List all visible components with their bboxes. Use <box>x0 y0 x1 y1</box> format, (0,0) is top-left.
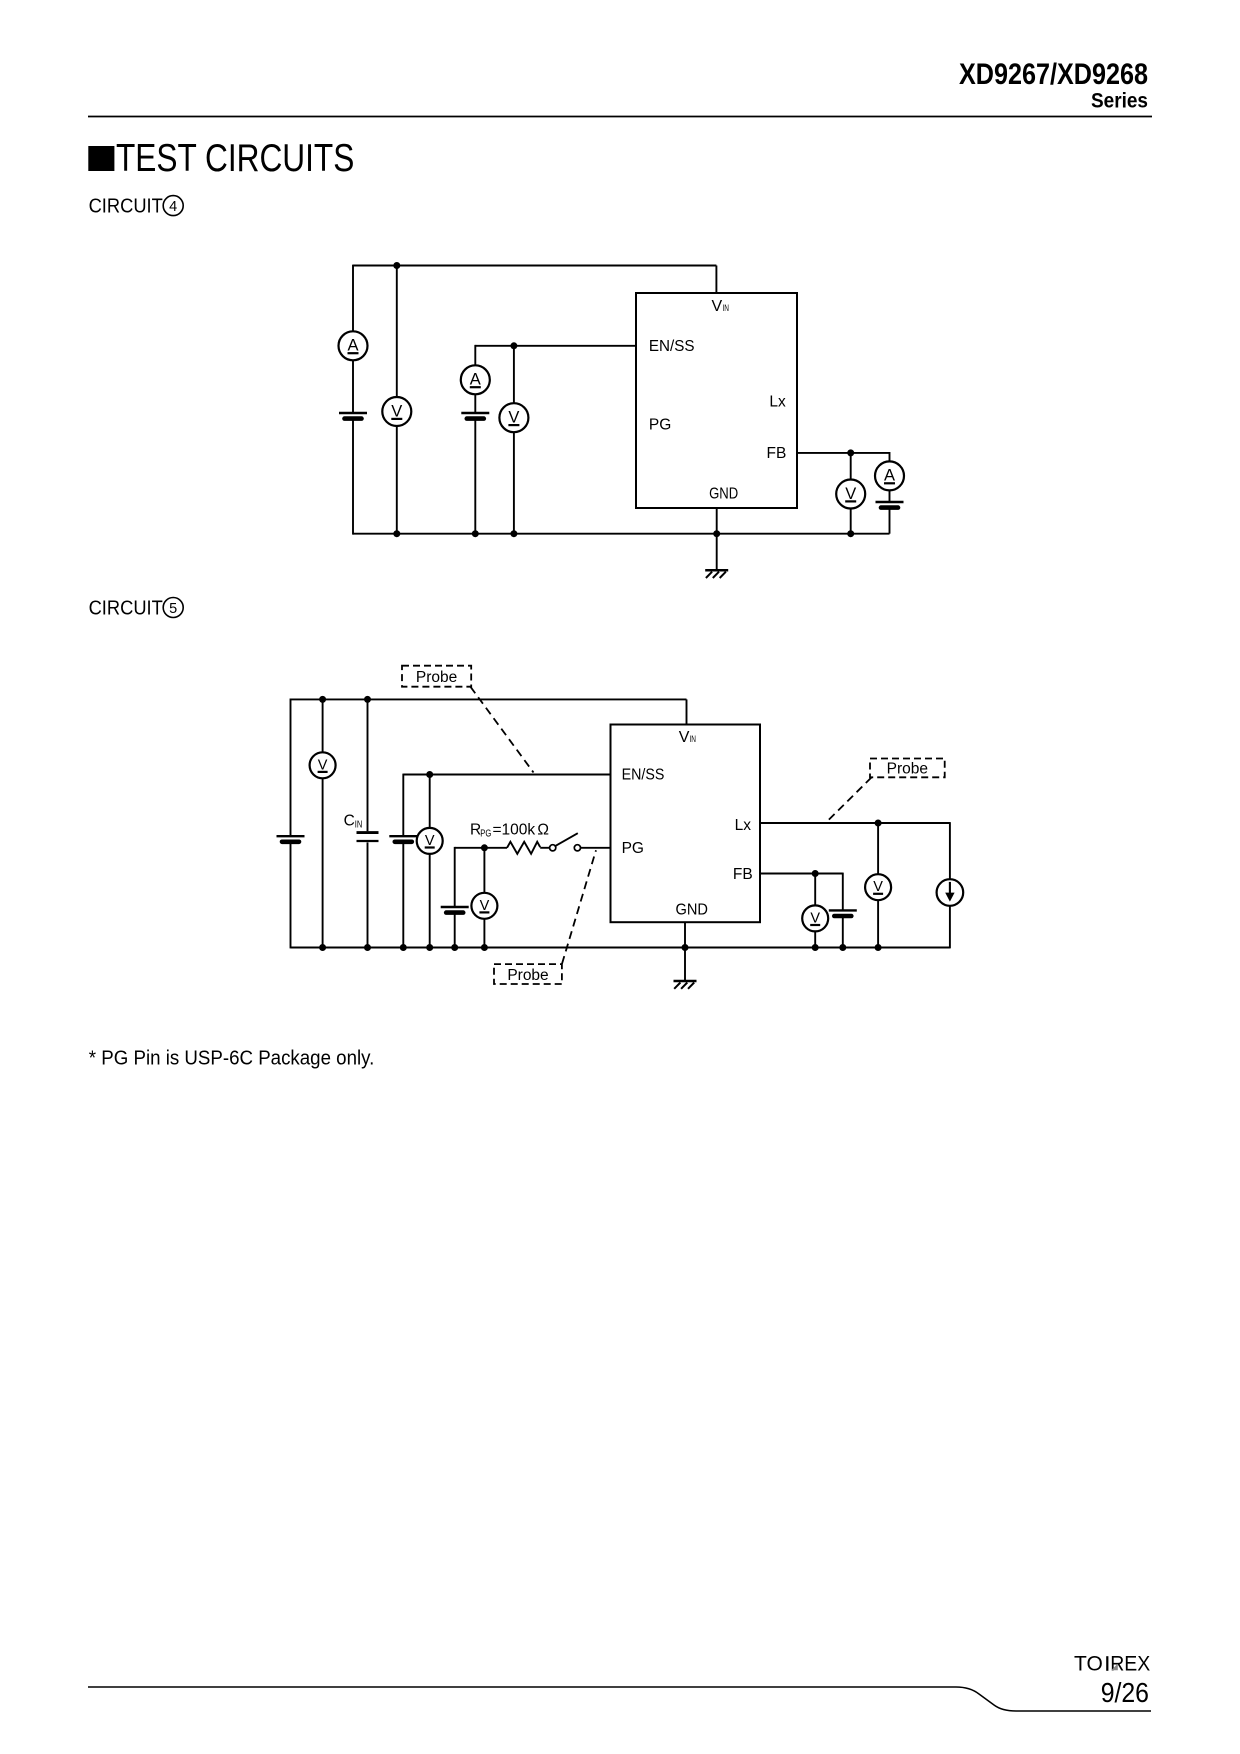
junction node on FB rail x=851 <box>847 449 854 456</box>
ammeter A (VIN source, circuit 4) <box>339 331 368 360</box>
label CIN <box>344 812 363 830</box>
svg-text:PG: PG <box>480 829 491 840</box>
wire FB battery branch x=843 <box>842 873 844 948</box>
wire Lx V meter branch x=878 <box>877 823 879 948</box>
junction node on VIN rail x=397 <box>393 262 400 269</box>
header part number XD9267/XD9268 <box>959 58 1148 91</box>
battery PG pull-up source <box>441 907 469 913</box>
wire V meter branch at x=397 <box>396 266 398 534</box>
section title TEST CIRCUITS <box>88 137 354 180</box>
svg-text:4: 4 <box>169 199 177 215</box>
wire FB V meter branch at x=851 <box>850 453 852 534</box>
svg-text:C: C <box>344 812 355 829</box>
svg-text:PG: PG <box>622 840 644 857</box>
label CIRCUIT 4 <box>89 196 184 218</box>
wire CIN capacitor branch x=367 <box>367 699 369 947</box>
wire FB V meter branch x=815 <box>814 874 816 948</box>
probe leader line (EN/SS) <box>471 687 534 773</box>
op-amp/IC U1 box (circuit 4 DUT) <box>636 293 797 508</box>
probe callout box (Lx) <box>870 759 945 778</box>
junction node top rail x=367 <box>364 696 371 703</box>
junction node bus x=514 <box>510 530 517 537</box>
footer page number 9/26 <box>1101 1677 1149 1708</box>
svg-text:GND: GND <box>676 902 709 919</box>
pin label GND (circuit 4) <box>709 486 738 503</box>
voltmeter V (FB, circuit 4) <box>836 480 865 509</box>
ground symbol (circuit 5) <box>674 981 697 989</box>
pin label GND (circuit 5) <box>676 902 709 919</box>
voltmeter V (VIN, circuit 4) <box>382 397 411 426</box>
voltmeter V (Lx output) <box>865 874 891 900</box>
wire PG battery branch x=455 <box>454 847 456 949</box>
switch SW (open) on PG line <box>550 833 581 851</box>
svg-text:9/26: 9/26 <box>1101 1677 1149 1708</box>
wire ground bus <box>353 533 890 535</box>
ground symbol (circuit 4) <box>705 570 728 578</box>
junction node bus x=397 <box>393 530 400 537</box>
pin label EN/SS (circuit 5) <box>622 767 665 784</box>
battery VIN source (circuit 5) <box>277 836 305 842</box>
voltmeter V (EN/SS, circuit 4) <box>499 403 528 432</box>
wire Lx load branch x=950 (current source) <box>949 822 951 948</box>
wire PG rail left segment <box>455 847 507 849</box>
wire FB rail (circuit 5) <box>760 873 843 875</box>
svg-text:=100k: =100k <box>493 822 536 839</box>
voltmeter V (VIN, circuit 5) <box>310 752 336 778</box>
svg-text:GND: GND <box>709 486 738 503</box>
junction node PG rail x=484 <box>481 844 488 851</box>
svg-text:* PG Pin is USP-6C Package onl: * PG Pin is USP-6C Package only. <box>89 1048 375 1070</box>
wire FB rail <box>797 452 890 454</box>
wire VIN top rail <box>353 265 716 267</box>
label CIRCUIT 5 <box>89 598 184 620</box>
svg-text:Probe: Probe <box>416 669 457 686</box>
svg-text:CIRCUIT: CIRCUIT <box>89 598 163 620</box>
voltmeter V (PG) <box>471 893 497 919</box>
capacitor CIN <box>357 833 379 841</box>
battery VIN source (circuit 4) <box>339 413 367 419</box>
junction node bus5 x=430 <box>426 944 433 951</box>
svg-text:V: V <box>391 402 402 420</box>
svg-text:XD9267/XD9268: XD9267/XD9268 <box>959 58 1148 91</box>
wire PG V meter branch x=484 <box>483 848 485 948</box>
svg-text:5: 5 <box>169 601 177 617</box>
svg-text:TO: TO <box>1074 1653 1103 1676</box>
svg-text:TEST CIRCUITS: TEST CIRCUITS <box>116 137 354 180</box>
svg-text:CIRCUIT: CIRCUIT <box>89 196 163 218</box>
svg-text:PG: PG <box>649 417 671 434</box>
svg-text:V: V <box>712 298 723 315</box>
svg-text:EN/SS: EN/SS <box>649 338 695 355</box>
battery FB source (circuit 4) <box>876 502 904 508</box>
resistor RPG zigzag <box>507 842 540 854</box>
pin label FB (circuit 5) <box>733 866 753 883</box>
svg-text:A: A <box>884 467 895 485</box>
wire left source branch (A meter / battery) <box>352 265 354 535</box>
battery EN/SS source (circuit 5) <box>389 836 417 842</box>
current source load (Lx) <box>937 879 964 906</box>
probe leader line (PG) <box>562 850 596 964</box>
junction node bus x=851 <box>847 530 854 537</box>
junction node bus5 x=323 <box>319 944 326 951</box>
pin label EN/SS (circuit 4) <box>649 338 695 355</box>
op-amp/IC U1 box (circuit 5 DUT) <box>611 725 761 923</box>
wire EN/SS V meter branch at x=514 <box>513 346 515 534</box>
wire EN/SS V meter branch x=430 <box>429 775 431 948</box>
pin label Lx (circuit 5) <box>735 817 752 834</box>
junction node bus5 x=878 <box>875 944 882 951</box>
battery EN/SS source (circuit 4) <box>461 413 489 419</box>
wire VIN pin drop <box>715 266 717 294</box>
junction node FB rail x=815 <box>812 870 819 877</box>
ammeter A (EN/SS source, circuit 4) <box>461 365 490 394</box>
svg-text:V: V <box>679 729 690 746</box>
wire EN/SS rail <box>475 345 636 347</box>
wire switch to PG pin <box>581 847 611 849</box>
junction node bus5 x=403 <box>400 944 407 951</box>
wire Lx rail (circuit 5) <box>760 822 950 824</box>
junction node bus5 x=685 GND <box>682 944 689 951</box>
wire GND pin to earth (circuit 5) <box>684 922 686 981</box>
wire VIN top rail (circuit 5) <box>291 698 687 700</box>
pin label VIN (circuit 4) <box>712 298 730 315</box>
junction node bus5 x=367 <box>364 944 371 951</box>
junction node bus x=717 (GND) <box>713 530 720 537</box>
wire GND pin to earth <box>716 508 718 570</box>
probe leader line (Lx) <box>827 777 872 822</box>
label RPG=100k ohm <box>470 822 549 840</box>
svg-text:Ω: Ω <box>537 822 549 839</box>
wire EN/SS battery branch x=403 <box>402 774 404 949</box>
junction node bus5 x=455 <box>451 944 458 951</box>
ammeter A (FB source, circuit 4) <box>875 461 904 490</box>
wire left battery branch x=290 <box>290 699 292 949</box>
wire EN/SS source branch (A meter / battery) <box>474 345 476 535</box>
wire FB A meter / battery branch at x=889 <box>889 452 891 534</box>
battery FB source (circuit 5) <box>829 910 857 916</box>
pin label VIN (circuit 5) <box>679 729 696 746</box>
junction node Lx rail x=878 <box>875 820 882 827</box>
probe callout box (EN/SS) <box>402 666 471 687</box>
pin label Lx (circuit 4) <box>769 393 786 410</box>
wire V meter branch x=323 <box>322 699 324 947</box>
svg-text:V: V <box>845 485 856 503</box>
pin label PG (circuit 4) <box>649 417 671 434</box>
svg-text:IN: IN <box>723 303 730 313</box>
svg-text:REX: REX <box>1110 1653 1150 1676</box>
header horizontal rule <box>88 116 1152 118</box>
svg-text:FB: FB <box>767 445 787 462</box>
junction node on EN/SS rail x=514 <box>510 342 517 349</box>
svg-text:Probe: Probe <box>887 761 928 778</box>
pin label FB (circuit 4) <box>767 445 787 462</box>
svg-text:Series: Series <box>1091 90 1148 113</box>
svg-text:IN: IN <box>690 734 697 744</box>
svg-text:A: A <box>470 371 481 389</box>
svg-text:EN/SS: EN/SS <box>622 767 665 784</box>
junction node top rail x=323 <box>319 696 326 703</box>
wire ground bus (circuit 5) <box>291 947 950 949</box>
footer TOREX logo <box>1074 1653 1150 1676</box>
svg-text:Lx: Lx <box>735 817 752 834</box>
pin label PG (circuit 5) <box>622 840 644 857</box>
header Series label <box>1091 90 1148 113</box>
voltmeter V (FB, circuit 5) <box>802 905 828 931</box>
junction node EN/SS rail x=430 <box>426 771 433 778</box>
probe callout box (PG) <box>494 964 562 984</box>
wire EN/SS rail (circuit 5) <box>403 774 610 776</box>
junction node bus5 x=815 <box>812 944 819 951</box>
junction node bus5 x=843 <box>839 944 846 951</box>
voltmeter V (EN/SS, circuit 5) <box>417 828 443 854</box>
footer rule with step <box>88 1687 1151 1711</box>
wire resistor to switch <box>540 847 549 849</box>
footnote PG pin package note <box>89 1048 375 1070</box>
svg-text:A: A <box>347 337 358 355</box>
junction node bus5 x=484 <box>481 944 488 951</box>
svg-text:IN: IN <box>355 819 363 830</box>
svg-text:V: V <box>508 409 519 427</box>
svg-text:Lx: Lx <box>769 393 786 410</box>
svg-text:Probe: Probe <box>507 967 548 984</box>
junction node bus x=475 <box>472 530 479 537</box>
svg-text:FB: FB <box>733 866 753 883</box>
wire VIN pin drop (circuit 5) <box>686 699 688 724</box>
